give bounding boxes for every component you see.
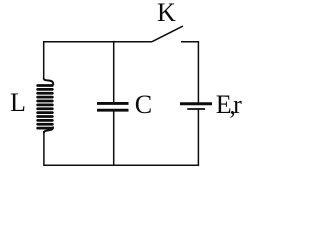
capacitor bottom plate [97,109,129,112]
svg-text:r: r [233,90,242,119]
capacitor C [97,103,129,110]
battery short plate [187,108,205,110]
svg-text:C: C [135,90,152,119]
inductor top hook [44,78,54,84]
battery E,r [180,104,212,109]
inductor L [36,78,53,133]
switch K [152,26,198,103]
switch right contact + right upper wire to battery [181,42,198,103]
switch blade [152,26,183,42]
wire: left lower lead + bottom horizontal + right lower lead [44,109,199,165]
svg-text:L: L [10,88,26,117]
svg-text:K: K [157,0,176,27]
wire: left upper lead + top horizontal (to switch) [44,42,152,79]
wire: middle vertical lower (from capacitor) [113,111,115,165]
wire: middle vertical upper (to capacitor) [113,41,115,102]
inductor bottom hook [44,127,53,134]
capacitor top plate [97,102,129,105]
battery long plate [180,102,212,105]
inductor coil turns [36,84,53,87]
